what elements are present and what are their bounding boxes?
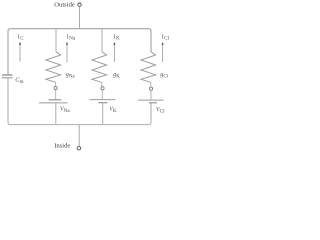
battery V_Na short plate (top)	[49, 99, 62, 101]
terminal: Outside node circle	[78, 3, 81, 6]
wire: K branch from top bus down to resistor	[101, 29, 103, 53]
wire: V_K to bottom bus	[102, 103, 104, 125]
battery V_K short plate (bottom)	[98, 102, 107, 104]
wire: node circle to V_Na battery	[55, 90, 57, 100]
svg-text:VNa: VNa	[60, 105, 71, 114]
svg-text:VCl: VCl	[156, 106, 165, 115]
svg-text:IC: IC	[18, 34, 25, 41]
node circle above V_K	[101, 87, 104, 90]
svg-text:IK: IK	[114, 34, 120, 41]
battery V_Na long plate (bottom)	[39, 102, 68, 104]
battery V_Cl long plate (top)	[138, 99, 164, 101]
resistor g_Na zigzag	[46, 52, 61, 83]
svg-text:VK: VK	[109, 106, 117, 115]
current arrow I_K shaft	[113, 45, 115, 62]
wire: between g_Cl and its node circle	[150, 82, 152, 87]
wire: V_Na to bottom bus	[55, 103, 57, 125]
svg-text:gK: gK	[113, 71, 120, 79]
capacitor C_m bottom plate	[2, 77, 13, 79]
battery V_Cl short plate (bottom)	[149, 102, 157, 104]
svg-text:gCl: gCl	[160, 71, 168, 79]
wire: Outside terminal lead down to top bus	[79, 7, 81, 29]
resistor g_K zigzag	[92, 52, 107, 83]
svg-text:INa: INa	[67, 34, 76, 41]
terminal: Inside node circle	[77, 146, 81, 150]
wire: Na branch from top bus down to resistor	[55, 29, 57, 53]
svg-text:Inside: Inside	[54, 142, 70, 149]
current arrow I_C head	[19, 42, 21, 45]
capacitor C_m top plate	[2, 74, 13, 76]
resistor g_Cl zigzag (on right edge branch)	[141, 52, 156, 83]
node circle above V_Na	[54, 86, 57, 89]
current arrow I_Cl shaft	[162, 45, 164, 62]
wire: Inside terminal lead up to bottom bus	[78, 125, 80, 147]
current arrow I_Na head	[66, 42, 68, 45]
svg-text:ICl: ICl	[162, 34, 170, 41]
wire: top bus with rounded corners into left edge and right (Cl) branch	[8, 29, 151, 75]
svg-text:gNa: gNa	[66, 71, 76, 79]
wire: node circle to V_Cl battery	[150, 90, 152, 100]
battery V_K long plate (top)	[90, 99, 116, 101]
current arrow I_Na shaft	[66, 45, 68, 63]
svg-text:Cm: Cm	[15, 76, 23, 84]
current arrow I_Cl head	[162, 42, 164, 45]
current arrow I_K head	[113, 42, 115, 45]
node circle above V_Cl	[149, 87, 152, 90]
wire: between g_K and its node circle	[101, 82, 103, 86]
wire: between g_Na and its node circle	[55, 82, 57, 86]
current arrow I_C shaft	[19, 44, 21, 61]
wire: bottom bus with rounded corners, from capacitor to Cl battery	[8, 78, 151, 125]
svg-text:Outside: Outside	[54, 1, 75, 8]
wire: node circle to V_K battery	[101, 90, 103, 100]
